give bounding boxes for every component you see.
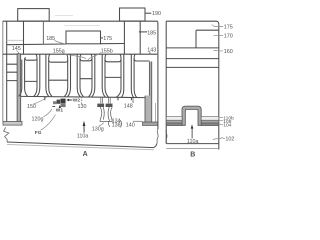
- B left edge: [165, 21, 167, 143]
- svg-text:FG: FG: [35, 130, 42, 136]
- leaders for 185,155a,155b,150,120g,FG,130g: [34, 41, 104, 131]
- 130 dashed leader: [81, 97, 83, 104]
- 102 squiggle: [213, 138, 225, 140]
- svg-text:148: 148: [124, 103, 133, 109]
- B 110a arrow: [191, 124, 194, 138]
- left vertical bar: [3, 54, 22, 125]
- inter-column line: [25, 77, 121, 81]
- baseline y97: [21, 96, 145, 97]
- slab line y44: [7, 44, 125, 45]
- 110b tick: [219, 116, 223, 118]
- B step 170: [196, 30, 219, 48]
- 120g leader: [44, 109, 52, 117]
- right vertical bar lower: [145, 96, 152, 123]
- right bar edges: [145, 62, 152, 123]
- inter-column upper cap lines: [25, 58, 37, 60]
- W1 arrows: [52, 105, 61, 108]
- svg-text:130g: 130g: [92, 127, 104, 133]
- 145 cell vertical: [23, 21, 25, 54]
- B right edge: [218, 24, 220, 149]
- B substrate line: [166, 143, 219, 145]
- svg-text:170: 170: [224, 33, 233, 39]
- column C3: [89, 54, 95, 97]
- label 185 tick: [139, 31, 147, 33]
- column C4: [116, 54, 124, 97]
- B substrate echo: [166, 148, 219, 150]
- 130g wavy gate caps: [97, 104, 104, 107]
- 130g hourglass gate outlines: [100, 107, 113, 122]
- W2 arrow annotation: [66, 99, 72, 102]
- svg-text:175: 175: [224, 25, 233, 31]
- svg-text:190: 190: [152, 11, 161, 17]
- svg-text:): ): [120, 119, 123, 128]
- substrate echo line A: [7, 144, 154, 149]
- column C0 right wall: [19, 57, 28, 96]
- B left side stack: [166, 116, 182, 125]
- left break zigzag: [4, 127, 9, 142]
- B label ticks: [212, 25, 225, 140]
- 185 leader: [55, 41, 66, 44]
- box 175: [66, 31, 101, 44]
- faint ghost lines: [55, 15, 100, 25]
- svg-text:150: 150: [27, 104, 36, 110]
- tower box 1: [18, 9, 50, 22]
- section A inner left boundary: [6, 21, 8, 121]
- vertical below tower1 right: [42, 21, 44, 44]
- svg-text:110a: 110a: [187, 139, 199, 145]
- column C2: [64, 54, 70, 96]
- substrate line A: [7, 142, 157, 148]
- left bar foot arm: [3, 121, 22, 125]
- section A outer left boundary: [2, 21, 4, 121]
- label 175 tick: [101, 37, 103, 39]
- tower box 2: [120, 8, 146, 21]
- B right side stack: [201, 116, 219, 125]
- 110a arrow (A): [83, 121, 86, 133]
- plug column below tower2: [124, 21, 140, 54]
- svg-text:143: 143: [147, 47, 156, 53]
- svg-text:W1: W1: [56, 108, 64, 114]
- svg-text:B: B: [190, 151, 195, 158]
- svg-text:W2: W2: [73, 97, 81, 103]
- svg-text:120g: 120g: [32, 117, 44, 123]
- right bar faint inner line: [155, 103, 157, 122]
- 143 leader tick: [149, 52, 151, 54]
- 160 tick: [214, 49, 224, 52]
- svg-text:160: 160: [224, 49, 233, 55]
- svg-text:102: 102: [225, 137, 234, 143]
- svg-text:140: 140: [126, 122, 135, 128]
- svg-text:A: A: [83, 151, 88, 158]
- svg-text:155b: 155b: [101, 48, 113, 54]
- svg-text:185: 185: [46, 36, 55, 42]
- 155b leader: [88, 53, 102, 61]
- right vertical bar upper: [149, 62, 151, 97]
- svg-text:145: 145: [12, 46, 21, 52]
- FG leader: [41, 115, 56, 131]
- 130g leader: [99, 123, 104, 126]
- A-B break squiggle left: [157, 129, 158, 143]
- svg-text:130: 130: [78, 104, 87, 110]
- C4 ticks: [45, 97, 132, 101]
- 150 leader: [34, 98, 47, 105]
- 170 tick: [214, 34, 224, 36]
- slab line y54: [3, 53, 158, 55]
- column C1: [34, 54, 40, 96]
- 148 leader tick: [132, 98, 134, 103]
- svg-text:175: 175: [103, 36, 112, 42]
- bottom right line y121: [133, 120, 143, 122]
- 104 tick: [219, 123, 223, 125]
- B top line with curl: [166, 21, 219, 24]
- label 190 tick: [145, 12, 151, 14]
- 130g gate posts: [101, 98, 110, 104]
- left stack lines: [7, 64, 17, 80]
- faint line y40: [7, 39, 24, 41]
- B U-gate: [182, 106, 201, 125]
- svg-text:155a: 155a: [53, 49, 65, 55]
- 155a leader: [62, 53, 86, 59]
- A-B break squiggle right: [166, 130, 167, 144]
- svg-text:104: 104: [223, 123, 231, 129]
- svg-text:185: 185: [147, 30, 156, 36]
- label 145 leader: [17, 51, 20, 54]
- dark gate cluster (FG stack): [53, 99, 66, 108]
- svg-text:(: (: [108, 119, 111, 128]
- section A top line: [3, 21, 158, 129]
- right bar foot arm: [143, 122, 158, 125]
- B layer lines: [166, 48, 219, 68]
- svg-text:110a: 110a: [77, 133, 89, 139]
- 108 tick: [219, 120, 223, 122]
- 175 tick: [212, 25, 223, 27]
